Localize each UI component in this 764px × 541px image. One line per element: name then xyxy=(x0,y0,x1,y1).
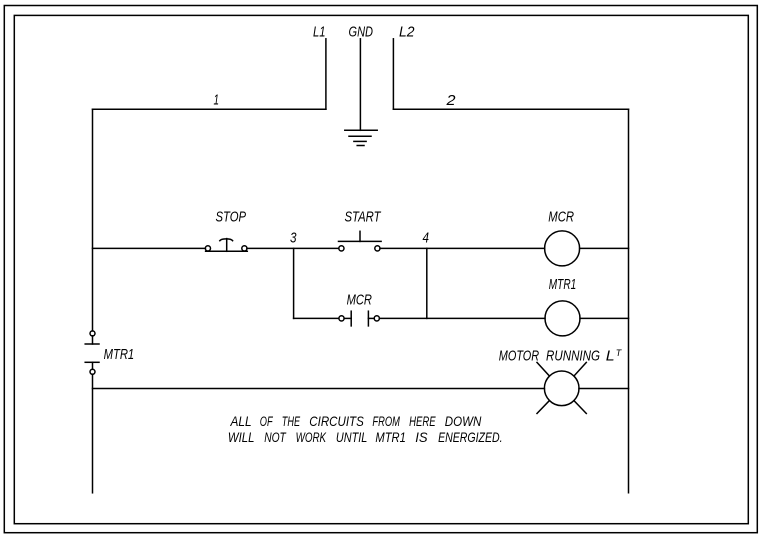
svg-text:ALL: ALL xyxy=(230,413,252,429)
wire node 3 drop xyxy=(293,248,295,318)
wire 2 (L2 to right rail) xyxy=(393,108,628,110)
wire rung3 right xyxy=(579,388,629,390)
wire coil MCR to right rail xyxy=(580,247,629,249)
wire rung2 right xyxy=(380,317,546,319)
wire L2 drop xyxy=(392,39,394,109)
wire rung1 mid xyxy=(247,247,339,249)
wire rung2 left xyxy=(294,317,339,319)
svg-text:RUNNING: RUNNING xyxy=(546,348,600,365)
contact MCR (NO) xyxy=(339,316,344,321)
svg-text:WORK: WORK xyxy=(296,429,327,445)
svg-text:1: 1 xyxy=(214,92,220,109)
svg-text:DOWN: DOWN xyxy=(445,413,482,429)
wire GND drop xyxy=(359,39,361,131)
wire coil MTR1 to right rail xyxy=(580,317,629,319)
contact MTR1 (NO, vertical, on left rail) xyxy=(90,331,95,336)
svg-text:OF: OF xyxy=(260,413,274,429)
svg-text:MTR1: MTR1 xyxy=(375,429,405,445)
svg-text:WILL: WILL xyxy=(228,429,255,445)
svg-text:HERE: HERE xyxy=(409,413,436,429)
svg-text:START: START xyxy=(345,208,382,225)
svg-text:CIRCUITS: CIRCUITS xyxy=(309,413,364,429)
svg-text:MTR1: MTR1 xyxy=(549,276,576,293)
svg-text:MTR1: MTR1 xyxy=(104,346,135,363)
wire left rail lower xyxy=(92,374,94,493)
svg-text:STOP: STOP xyxy=(216,208,247,225)
wire right rail xyxy=(628,109,630,493)
svg-text:ENERGIZED.: ENERGIZED. xyxy=(438,429,503,445)
svg-text:FROM: FROM xyxy=(372,413,400,429)
wire rung1 left xyxy=(93,247,206,249)
coil MCR xyxy=(545,231,580,266)
svg-text:GND: GND xyxy=(349,24,374,41)
svg-text:L1: L1 xyxy=(313,24,326,41)
wire left rail upper xyxy=(92,109,94,331)
wire rung3 left xyxy=(93,388,545,390)
svg-text:THE: THE xyxy=(282,413,301,429)
svg-text:NOT: NOT xyxy=(264,429,287,445)
svg-text:IS: IS xyxy=(415,429,428,445)
svg-text:UNTIL: UNTIL xyxy=(336,429,367,445)
wire rung1 right xyxy=(380,247,545,249)
svg-text:L: L xyxy=(606,348,615,365)
svg-text:2: 2 xyxy=(445,92,456,109)
svg-text:MOTOR: MOTOR xyxy=(499,348,539,365)
svg-text:MCR: MCR xyxy=(548,208,574,225)
pushbutton START (NO) xyxy=(339,246,344,251)
wire 1 (L1 to left rail) xyxy=(93,108,326,110)
wire L1 drop xyxy=(325,39,327,109)
svg-text:4: 4 xyxy=(423,230,430,247)
lamp MOTOR RUNNING LT xyxy=(544,371,579,406)
svg-text:3: 3 xyxy=(290,230,297,247)
wire node 4 drop xyxy=(426,248,428,318)
svg-text:L2: L2 xyxy=(399,24,415,41)
coil MTR1 xyxy=(545,301,580,336)
svg-text:MCR: MCR xyxy=(347,292,372,309)
pushbutton STOP (NC) xyxy=(205,246,210,251)
ground xyxy=(345,129,377,131)
